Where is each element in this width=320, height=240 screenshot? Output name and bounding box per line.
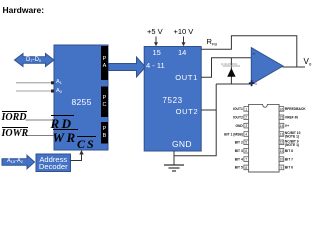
- svg-text:2: 2: [245, 116, 247, 120]
- svg-text:11: 11: [280, 149, 284, 153]
- wire output Vo: [283, 66, 306, 68]
- DIP pin 16 box: [279, 107, 284, 112]
- pin 15 label: [153, 49, 161, 57]
- svg-text:16: 16: [280, 107, 284, 111]
- net label IOWR: [2, 127, 29, 139]
- diode D1: [230, 58, 232, 84]
- svg-text:4: 4: [245, 132, 247, 136]
- svg-text:8: 8: [245, 166, 247, 170]
- pin label WR: [53, 129, 78, 144]
- address bus label A15-A2: [7, 159, 23, 165]
- pin OUT2 label: [176, 108, 199, 116]
- pin GND label: [172, 140, 192, 149]
- DIP pin 12 box: [279, 140, 284, 145]
- svg-text:IOUT1: IOUT1: [233, 107, 243, 111]
- pin 14 label: [178, 49, 186, 57]
- svg-text:BIT 6: BIT 6: [285, 166, 293, 170]
- wire OUT2 to ground rail: [174, 84, 216, 156]
- decoder label: [36, 156, 71, 171]
- address bus arrow A15-A2: [2, 155, 35, 168]
- wire decoder to CS: [71, 154, 82, 161]
- svg-text:3: 3: [245, 124, 247, 128]
- DIP pin 13 box: [279, 132, 284, 137]
- svg-text:BIT 1 (MSB): BIT 1 (MSB): [224, 132, 243, 136]
- port C label: [101, 95, 108, 109]
- +5V supply wire: [155, 37, 157, 44]
- pin label A1: [56, 80, 62, 86]
- wire IOWR to WR: [27, 135, 55, 137]
- DIP pin 1 box: [244, 107, 249, 112]
- DIP pin 6 box: [244, 148, 249, 153]
- supply label +5V: [147, 28, 163, 36]
- DIP pin 14 box: [279, 123, 284, 128]
- svg-text:BIT 5: BIT 5: [235, 166, 243, 170]
- ground: [164, 164, 184, 166]
- pin label RD: [51, 115, 74, 130]
- IC pinout DIP body: [249, 104, 280, 172]
- diode part number smudge: [221, 63, 238, 66]
- title text "Hardware:": [3, 6, 45, 15]
- port A box: [101, 46, 108, 80]
- svg-text:BIT 8: BIT 8: [285, 149, 293, 153]
- wire A1: [16, 82, 54, 84]
- svg-text:BIT 7: BIT 7: [285, 157, 293, 161]
- bus label D7-D0: [26, 57, 41, 63]
- pins 4-11 label: [146, 62, 165, 70]
- wire OUT2: [201, 109, 216, 111]
- net label IORD: [2, 111, 27, 123]
- chip label 7523: [163, 97, 183, 105]
- DIP pin 11 box: [279, 148, 284, 153]
- svg-text:(NOTE 1): (NOTE 1): [285, 143, 299, 147]
- port B box: [101, 122, 108, 144]
- output label Vo: [304, 58, 312, 67]
- +10V supply wire: [183, 37, 185, 44]
- svg-text:1: 1: [245, 107, 247, 111]
- op-amp plus mark: [249, 82, 255, 84]
- DAC U2 7523 body: [144, 47, 201, 152]
- svg-text:10: 10: [280, 158, 284, 162]
- wire IORD to RD: [26, 119, 55, 121]
- DIP pin 9 box: [279, 165, 284, 170]
- DIP pin 5 box: [244, 140, 249, 145]
- svg-text:14: 14: [280, 124, 284, 128]
- wire GND stem: [173, 151, 175, 165]
- pin OUT1 label: [175, 74, 198, 82]
- svg-text:9: 9: [280, 166, 282, 170]
- svg-text:IOUT2: IOUT2: [233, 116, 243, 120]
- DIP pin 2 box: [244, 115, 249, 120]
- svg-text:BIT 4: BIT 4: [235, 157, 243, 161]
- port A label: [101, 56, 108, 70]
- DIP pin 15 box: [279, 115, 284, 120]
- wire RFB feedback: [201, 36, 297, 67]
- data bus arrow D7-D0: [15, 54, 55, 67]
- DIP pin 7 box: [244, 157, 249, 162]
- chip label 8255: [72, 98, 92, 107]
- supply label +10V: [174, 28, 194, 36]
- port C box: [101, 87, 108, 118]
- svg-text:BIT 2: BIT 2: [235, 141, 243, 145]
- DIP pin 10 box: [279, 157, 284, 162]
- DIP pin 3 box: [244, 123, 249, 128]
- svg-text:5: 5: [245, 141, 247, 145]
- svg-text:BIT 3: BIT 3: [235, 149, 243, 153]
- svg-text:(NOTE 1): (NOTE 1): [285, 135, 299, 139]
- bus arrow port A to DAC: [109, 57, 146, 77]
- svg-text:7: 7: [245, 158, 247, 162]
- wire OUT1 to inverting input: [201, 58, 251, 78]
- DIP pin 4 box: [244, 132, 249, 137]
- chip U1 8255 body: [54, 45, 108, 150]
- svg-text:RFEEDBACK: RFEEDBACK: [285, 107, 306, 111]
- pin label CS: [77, 136, 96, 150]
- IC pinout DIP pins: [0, 0, 320, 180]
- svg-text:6: 6: [245, 149, 247, 153]
- resistor label RFB: [207, 38, 218, 47]
- port B label: [101, 126, 108, 140]
- op-amp U3: [251, 48, 283, 85]
- svg-text:V+: V+: [285, 124, 289, 128]
- pin label A0: [56, 89, 62, 95]
- address decoder box: [36, 154, 71, 172]
- op-amp minus mark: [253, 53, 256, 55]
- wire A0: [16, 90, 54, 92]
- wire noninverting input: [216, 83, 251, 85]
- DIP pin 8 box: [244, 165, 249, 170]
- op-amp pin 6 red mark: [255, 82, 258, 87]
- svg-text:GND: GND: [235, 124, 243, 128]
- svg-text:VREF IN: VREF IN: [285, 116, 299, 120]
- svg-text:15: 15: [280, 116, 284, 120]
- svg-text:13: 13: [280, 132, 284, 136]
- svg-text:12: 12: [280, 141, 284, 145]
